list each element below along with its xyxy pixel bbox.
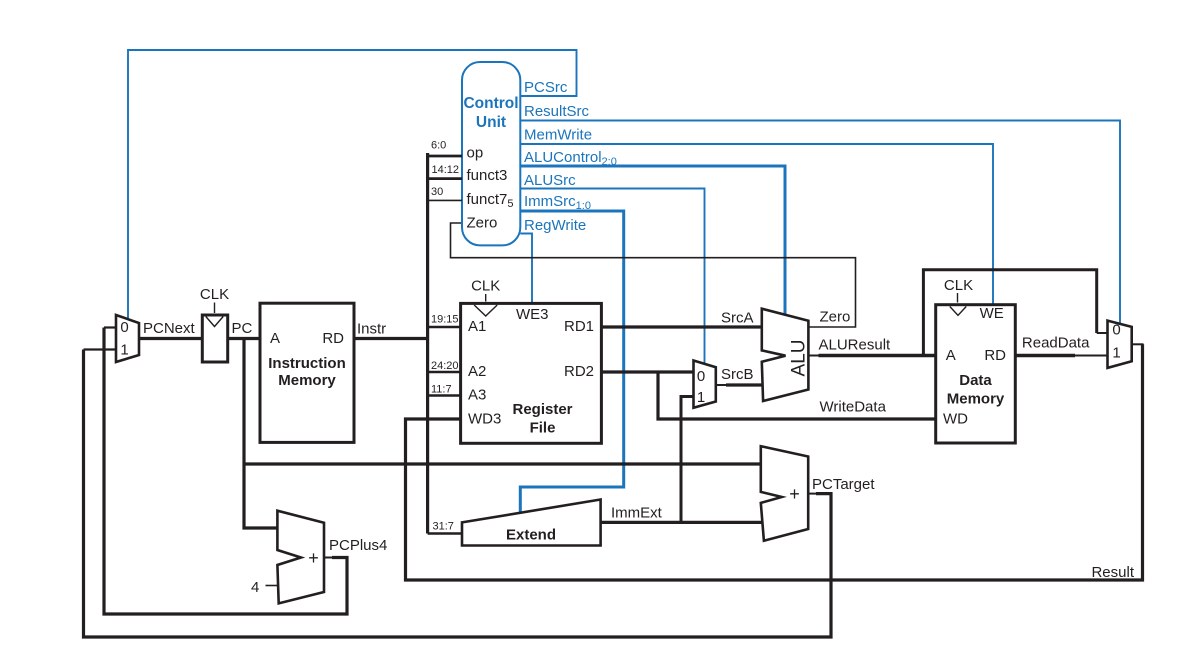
svg-text:31:7: 31:7: [433, 521, 454, 533]
block Data Memory: [936, 305, 1016, 443]
svg-text:CLK: CLK: [200, 286, 229, 303]
svg-text:Result: Result: [1091, 564, 1134, 581]
wire CLK stub (data memory): [957, 293, 959, 303]
svg-text:+: +: [789, 484, 800, 504]
adder PCPlus4: [277, 511, 324, 604]
svg-text:Zero: Zero: [820, 309, 851, 326]
wire bypass stub into result mux input 0: [1097, 332, 1108, 334]
ALU U-ALU: [762, 309, 810, 401]
mux SrcB (select ALUSrc): [694, 361, 716, 408]
svg-text:MemWrite: MemWrite: [524, 127, 592, 144]
wire RD1 / SrcA: [601, 325, 761, 328]
wire ALUResult stub: [808, 355, 819, 357]
wire mux0 input stub: [104, 326, 117, 328]
wire Extend input slice 31:7: [428, 532, 462, 535]
svg-text:RD: RD: [322, 330, 344, 347]
svg-text:File: File: [530, 420, 556, 437]
svg-text:ImmExt: ImmExt: [611, 505, 663, 522]
wire PC to PCTarget adder: [244, 462, 761, 465]
svg-text:4: 4: [251, 579, 259, 596]
svg-text:Memory: Memory: [278, 372, 336, 389]
svg-text:op: op: [467, 145, 484, 162]
block Register File: [461, 303, 602, 443]
svg-text:Control: Control: [463, 95, 518, 112]
svg-text:funct3: funct3: [467, 167, 508, 184]
svg-text:ALUSrc: ALUSrc: [524, 172, 576, 189]
wire MemWrite (to data memory WE): [520, 144, 993, 305]
svg-text:CLK: CLK: [471, 278, 500, 295]
svg-text:RegWrite: RegWrite: [524, 217, 586, 234]
wire A3 slice 11:7: [428, 394, 461, 397]
svg-text:WE3: WE3: [516, 306, 549, 323]
wire PCSrc (control output, loops over top to PCNext mux select): [128, 50, 577, 319]
svg-text:24:20: 24:20: [431, 360, 459, 372]
wire ResultSrc (to result mux select): [520, 121, 1120, 324]
svg-text:PCTarget: PCTarget: [812, 476, 875, 493]
svg-text:11:7: 11:7: [431, 384, 452, 396]
svg-text:1: 1: [697, 389, 705, 406]
control unit U-CTRL: [462, 62, 520, 245]
svg-text:A: A: [946, 347, 956, 364]
mux Result (select ResultSrc): [1108, 321, 1132, 368]
svg-text:WD3: WD3: [468, 411, 501, 428]
svg-text:0: 0: [697, 368, 705, 385]
svg-text:Register: Register: [512, 401, 572, 418]
svg-text:1: 1: [120, 342, 128, 359]
Instr bus vertical: [426, 153, 429, 534]
wire op slice 6:0: [428, 155, 462, 158]
svg-text:+: +: [308, 548, 319, 568]
svg-text:SrcA: SrcA: [721, 310, 754, 327]
wire Result loop (to WD3): [406, 344, 1143, 580]
wire ReadData stub into result mux input 1: [1074, 355, 1108, 357]
svg-text:6:0: 6:0: [431, 140, 446, 152]
wire ReadData: [1015, 354, 1075, 357]
wire ALUSrc (to SrcB mux select): [520, 189, 704, 365]
wire PCPlus4 loop (adder output to PCNext mux input 0): [104, 328, 347, 615]
svg-text:14:12: 14:12: [432, 164, 460, 176]
svg-text:SrcB: SrcB: [721, 366, 754, 383]
svg-text:Data: Data: [959, 372, 992, 389]
wire PCPlus4 output stub: [324, 557, 333, 559]
wire ImmSrc 1:0 (to Extend): [520, 211, 623, 513]
svg-text:0: 0: [120, 319, 128, 336]
wire PCTarget loop (adder output to PCNext mux input 1): [84, 350, 832, 638]
wire 4 input: [266, 585, 278, 587]
svg-text:PC: PC: [232, 320, 253, 337]
svg-text:1: 1: [1112, 345, 1120, 362]
svg-text:RD1: RD1: [564, 318, 594, 335]
wire funct3 slice 14:12: [428, 177, 462, 180]
wire A2 slice 24:20: [428, 371, 461, 374]
svg-text:WE: WE: [980, 305, 1004, 322]
wire mux1 input stub: [84, 348, 117, 350]
svg-text:WD: WD: [943, 411, 968, 428]
svg-text:ReadData: ReadData: [1022, 335, 1090, 352]
wire PCTarget output stub: [808, 493, 817, 495]
svg-text:A2: A2: [468, 363, 486, 380]
wire CLK stub (PC): [214, 303, 216, 314]
svg-text:WriteData: WriteData: [820, 399, 887, 416]
wire WriteData branch: [658, 372, 936, 419]
register PC: [202, 315, 227, 362]
wire ALUResult bypass over data memory: [923, 270, 1096, 356]
wire ALUControl 2:0 (to ALU): [520, 166, 785, 316]
svg-text:PCSrc: PCSrc: [524, 79, 568, 96]
svg-text:ALUResult: ALUResult: [819, 337, 892, 354]
wire RD2: [601, 370, 693, 373]
svg-text:30: 30: [431, 186, 443, 198]
wire PCNext: [139, 337, 203, 340]
svg-text:A3: A3: [468, 387, 486, 404]
block Instruction Memory: [260, 303, 354, 442]
wire A1 slice 19:15: [428, 326, 461, 329]
svg-text:A1: A1: [468, 318, 486, 335]
wire CLK stub (register file): [485, 294, 487, 302]
wire PC feedback vertical: [244, 339, 277, 529]
svg-text:0: 0: [1112, 322, 1120, 339]
svg-text:PCNext: PCNext: [143, 320, 196, 337]
svg-text:RD2: RD2: [564, 363, 594, 380]
wire ImmExt: [601, 521, 762, 524]
svg-text:funct75: funct75: [467, 191, 514, 210]
wire Instr: [354, 337, 428, 340]
svg-text:19:15: 19:15: [431, 314, 459, 326]
wire ImmExt riser to SrcB mux: [681, 397, 693, 523]
wire RegWrite (to register file WE3): [520, 234, 532, 304]
svg-text:Zero: Zero: [467, 215, 498, 232]
block Extend: [462, 500, 601, 546]
svg-text:A: A: [270, 330, 280, 347]
svg-text:Unit: Unit: [476, 114, 506, 131]
svg-text:Instr: Instr: [357, 321, 386, 338]
svg-text:Extend: Extend: [506, 527, 556, 544]
svg-text:Instruction: Instruction: [268, 355, 346, 372]
svg-text:ResultSrc: ResultSrc: [524, 103, 590, 120]
mux PCNext (select PCSrc): [116, 315, 139, 362]
wire ALUResult: [819, 354, 936, 357]
svg-text:CLK: CLK: [944, 277, 973, 294]
wire SrcB: [716, 384, 727, 386]
svg-text:ALU: ALU: [789, 340, 810, 377]
adder PCTarget: [761, 446, 808, 541]
svg-text:Memory: Memory: [947, 391, 1005, 408]
wire Zero (ALU zero flag to control unit): [451, 223, 856, 327]
wire funct7 slice 30: [428, 199, 462, 201]
wire result mux output stub: [1132, 343, 1144, 345]
svg-text:RD: RD: [984, 347, 1006, 364]
wire PC: [228, 337, 261, 340]
svg-text:PCPlus4: PCPlus4: [329, 537, 387, 554]
